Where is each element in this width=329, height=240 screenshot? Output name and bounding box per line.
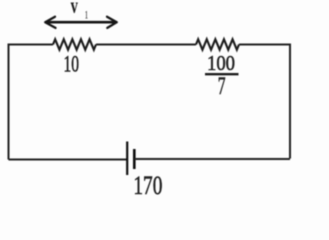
wire: top-left segment <box>9 44 54 46</box>
svg-text:100: 100 <box>207 51 235 75</box>
wire: bottom-right segment <box>134 158 290 160</box>
wire: top-right segment <box>239 44 290 46</box>
svg-text:170: 170 <box>133 170 162 200</box>
arrow: double-headed span for v1 <box>45 17 117 28</box>
svg-text:v: v <box>71 0 79 18</box>
svg-text:10: 10 <box>64 52 80 78</box>
resistor R2 (100/7 ohm) zigzag <box>196 39 239 49</box>
wire: right vertical <box>289 44 291 159</box>
fraction bar <box>205 73 239 75</box>
wire: left vertical <box>8 44 10 160</box>
resistor R1 (10 ohm) zigzag <box>53 39 96 49</box>
wire: bottom-left segment <box>9 159 128 161</box>
svg-text:7: 7 <box>218 73 226 100</box>
svg-text:1: 1 <box>85 8 89 22</box>
battery V1 short plate <box>133 149 136 169</box>
wire: top-middle segment <box>96 44 196 46</box>
battery V1 long plate <box>126 142 128 176</box>
